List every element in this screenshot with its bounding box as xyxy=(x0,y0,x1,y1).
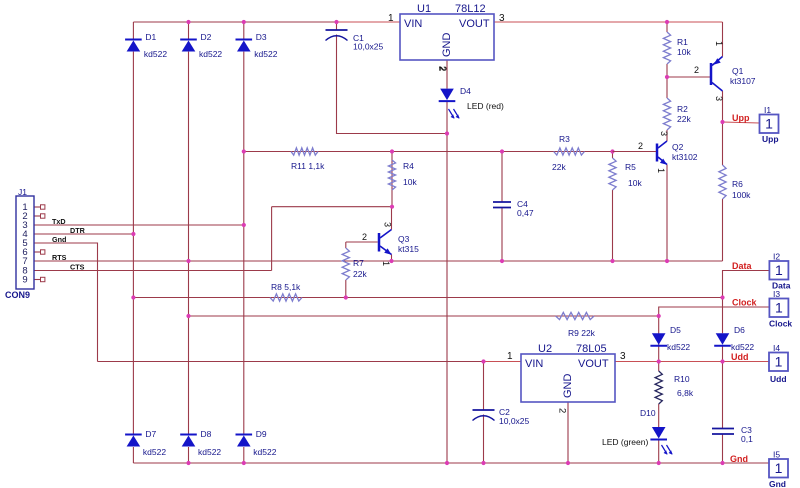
diode D10 LED xyxy=(652,427,666,439)
svg-text:D3: D3 xyxy=(256,32,267,42)
svg-text:Q3: Q3 xyxy=(398,234,410,244)
wire TxD from J1 pin3 xyxy=(34,224,244,226)
svg-text:D4: D4 xyxy=(460,86,471,96)
svg-text:10,0x25: 10,0x25 xyxy=(353,42,384,52)
junction R7-Data row xyxy=(344,295,348,299)
diode D3 xyxy=(236,39,253,41)
svg-text:CTS: CTS xyxy=(70,263,85,272)
svg-text:2: 2 xyxy=(436,66,447,71)
wire R6 top lead xyxy=(722,122,724,165)
terminal square J1 pin y=252 xyxy=(41,250,45,254)
wire R7 bottom lead xyxy=(345,280,347,298)
svg-text:DTR: DTR xyxy=(70,226,86,235)
wire D6 bottom lead xyxy=(722,346,724,362)
LED D10 arrows xyxy=(662,445,668,454)
svg-text:VIN: VIN xyxy=(404,18,422,30)
svg-text:Udd: Udd xyxy=(731,352,749,362)
wire D10 to Gnd rail xyxy=(658,440,660,463)
svg-text:100k: 100k xyxy=(732,190,751,200)
svg-text:1: 1 xyxy=(381,261,391,266)
wire D7 bottom segment xyxy=(132,447,134,463)
resistor R6 xyxy=(719,165,726,199)
svg-text:kt315: kt315 xyxy=(398,244,419,254)
resistor R1 xyxy=(663,32,670,64)
wire Gnd from J1 pin5 xyxy=(34,243,98,362)
wire R2 top lead xyxy=(666,77,668,98)
wire D2 column xyxy=(188,22,190,40)
svg-text:CON9: CON9 xyxy=(5,290,30,300)
svg-text:kd522: kd522 xyxy=(667,342,690,352)
junction D2 top xyxy=(186,20,190,24)
junction D2col-R9 row xyxy=(186,314,190,318)
wire Q1 emitter lead xyxy=(722,22,724,57)
svg-text:3: 3 xyxy=(714,96,724,101)
svg-text:I3: I3 xyxy=(773,289,780,299)
wire Q2 emitter to RTS row xyxy=(666,165,668,262)
wire Q3 emitter drop xyxy=(391,255,393,262)
svg-text:D10: D10 xyxy=(640,408,656,418)
svg-text:U1: U1 xyxy=(417,3,431,15)
resistor R5 xyxy=(609,158,616,190)
junction C3-Gnd xyxy=(720,461,724,465)
svg-text:1: 1 xyxy=(775,262,783,278)
diode D5 xyxy=(652,333,666,345)
junction R5-RTS xyxy=(610,259,614,263)
svg-text:D9: D9 xyxy=(256,429,267,439)
svg-text:Gnd: Gnd xyxy=(769,479,786,488)
svg-text:R8 5,1k: R8 5,1k xyxy=(271,282,301,292)
junction R5 top xyxy=(610,149,614,153)
connector I2 Data box xyxy=(769,261,788,280)
svg-text:3: 3 xyxy=(659,131,669,136)
junction C4 top xyxy=(500,149,504,153)
svg-text:10k: 10k xyxy=(628,178,642,188)
wire C3 bottom lead xyxy=(722,434,724,463)
svg-text:kd522: kd522 xyxy=(253,447,276,457)
connector I3 Clock box xyxy=(769,299,788,318)
wire D2 anode column down to D8 xyxy=(188,52,190,435)
wire Data/R8 row xyxy=(133,297,722,299)
wire D9 bottom segment xyxy=(243,447,245,463)
svg-text:1: 1 xyxy=(714,41,724,46)
transistor Q1 body (PNP) xyxy=(710,63,713,85)
svg-text:R9 22k: R9 22k xyxy=(568,328,596,338)
svg-text:22k: 22k xyxy=(677,114,691,124)
diode D6 xyxy=(716,333,730,345)
svg-text:1: 1 xyxy=(656,168,666,173)
junction D6/C3 Udd xyxy=(720,359,724,363)
svg-text:VOUT: VOUT xyxy=(459,18,490,30)
wire Clock corner to J3 xyxy=(659,307,770,316)
wire Data corner column to D6 xyxy=(723,271,770,334)
transistor Q2 body xyxy=(656,144,659,162)
svg-text:D1: D1 xyxy=(145,32,156,42)
resistor R8 xyxy=(270,294,302,301)
wire node row TxD-R11-R3 (y=151.5) xyxy=(244,151,656,153)
wire bright lead C1-to-U1 xyxy=(337,21,401,23)
svg-text:kt3107: kt3107 xyxy=(730,76,756,86)
resistor R3 xyxy=(554,148,585,155)
svg-text:kd522: kd522 xyxy=(143,447,166,457)
wire J1 stub pin y=252 xyxy=(34,251,41,253)
svg-text:R5: R5 xyxy=(625,162,636,172)
svg-text:Upp: Upp xyxy=(762,134,779,144)
svg-text:I2: I2 xyxy=(773,252,780,262)
svg-text:kd522: kd522 xyxy=(199,49,222,59)
svg-text:1: 1 xyxy=(507,351,513,362)
wire R5 top lead xyxy=(612,152,614,159)
svg-text:Gnd: Gnd xyxy=(52,235,66,244)
wire Upp row to I1 xyxy=(723,122,760,123)
junction R1 top xyxy=(665,20,669,24)
svg-text:GND: GND xyxy=(441,33,453,58)
svg-text:9: 9 xyxy=(22,275,27,286)
svg-text:kd522: kd522 xyxy=(254,49,277,59)
junction Upp xyxy=(720,120,724,124)
junction C4-RTS xyxy=(500,259,504,263)
wire bright C2-U2 pin1 xyxy=(484,361,522,363)
svg-text:J1: J1 xyxy=(18,187,27,197)
svg-text:2: 2 xyxy=(638,141,643,151)
svg-text:R11 1,1k: R11 1,1k xyxy=(291,161,325,171)
svg-text:VOUT: VOUT xyxy=(578,358,609,370)
resistor R4 xyxy=(388,160,395,190)
junction U2GND-Gnd xyxy=(566,461,570,465)
svg-text:10k: 10k xyxy=(677,47,691,57)
svg-text:78L12: 78L12 xyxy=(455,3,486,15)
wire R10 top lead xyxy=(658,362,660,372)
svg-text:kd522: kd522 xyxy=(198,447,221,457)
svg-text:2: 2 xyxy=(557,408,568,413)
svg-text:22k: 22k xyxy=(552,162,566,172)
wire R4 column xyxy=(391,152,393,207)
resistor R2 xyxy=(663,98,670,130)
wire U2 VOUT rail to J4 xyxy=(615,361,769,363)
wire U1 GND pin to D4 xyxy=(446,60,448,89)
terminal square J1 pin y=207 xyxy=(41,205,45,209)
wire D3 anode column down to D9 xyxy=(243,52,245,435)
wire Q2 collector to R2 xyxy=(666,130,668,141)
junction GNDcol-Gnd xyxy=(445,461,449,465)
junction R9-Clock col xyxy=(657,314,661,318)
svg-text:3: 3 xyxy=(620,351,626,362)
diode D4 LED xyxy=(440,89,454,101)
svg-text:D8: D8 xyxy=(201,429,212,439)
svg-text:I1: I1 xyxy=(764,105,771,115)
svg-text:D5: D5 xyxy=(670,325,681,335)
junction D4 cathode xyxy=(445,131,449,135)
diode D9 xyxy=(236,434,253,436)
svg-text:R10: R10 xyxy=(674,374,690,384)
svg-text:22k: 22k xyxy=(353,269,367,279)
svg-text:Data: Data xyxy=(732,261,753,271)
connector I5 Gnd box xyxy=(769,459,788,478)
junction TxD-D3 xyxy=(242,223,246,227)
wire C3 top lead xyxy=(722,362,724,429)
junction D3 top xyxy=(242,20,246,24)
svg-text:10k: 10k xyxy=(403,177,417,187)
svg-text:U2: U2 xyxy=(538,343,552,355)
wire R9 row from D2 column xyxy=(189,315,659,317)
svg-text:1: 1 xyxy=(775,460,783,476)
svg-text:2: 2 xyxy=(694,65,699,75)
svg-text:R3: R3 xyxy=(559,134,570,144)
wire D5 column to Udd rail xyxy=(658,316,660,362)
junction R4/CTS/Q3 xyxy=(390,205,394,209)
wire J1 stub pin y=207 xyxy=(34,206,41,208)
wire Q3 collector drop xyxy=(391,207,393,230)
junction C1 top xyxy=(334,20,338,24)
wire DTR from J1 pin4 xyxy=(34,233,133,235)
junction C2 top xyxy=(481,359,485,363)
wire R10 to D10 xyxy=(658,404,660,427)
transistor Q3 body xyxy=(378,233,381,252)
wire CTS from J1 pin8 xyxy=(34,270,272,272)
svg-text:1: 1 xyxy=(775,300,783,316)
svg-text:2: 2 xyxy=(362,232,367,242)
svg-text:LED (red): LED (red) xyxy=(467,101,504,111)
junction Data row-D6 col xyxy=(720,295,724,299)
svg-text:3: 3 xyxy=(383,222,393,227)
wire U2 GND pin lead xyxy=(567,402,569,463)
resistor R7 xyxy=(342,248,349,280)
svg-text:1: 1 xyxy=(765,116,773,132)
resistor R9 xyxy=(556,312,595,319)
svg-text:1: 1 xyxy=(388,13,394,24)
svg-text:3: 3 xyxy=(499,13,505,24)
wire R1 bottom to base node xyxy=(666,64,668,77)
wire D1 anode column down to D7 xyxy=(132,52,134,435)
svg-text:0,47: 0,47 xyxy=(517,208,534,218)
svg-text:GND: GND xyxy=(562,374,574,399)
svg-text:R1: R1 xyxy=(677,37,688,47)
wire CTS row to R4/Q3 xyxy=(272,206,392,208)
op-amp U2 box xyxy=(521,354,615,402)
resistor R11 xyxy=(291,148,318,155)
svg-text:Clock: Clock xyxy=(769,319,792,329)
svg-text:kd522: kd522 xyxy=(144,49,167,59)
svg-text:Clock: Clock xyxy=(732,298,758,308)
junction Q3 emitter-RTS xyxy=(389,259,393,263)
wire C1 top lead xyxy=(336,22,338,30)
wire C2 top lead xyxy=(483,362,485,411)
wire R6 bottom lead to RTS corner xyxy=(722,199,724,261)
capacitor C2 xyxy=(473,409,495,411)
capacitor C3 xyxy=(712,428,734,430)
wire J1 stub pin y=216 xyxy=(34,215,41,217)
wire U1 VOUT rail to Q1 xyxy=(494,21,723,23)
junction DTR-D1 xyxy=(131,232,135,236)
svg-text:I5: I5 xyxy=(773,450,780,460)
resistor R10 xyxy=(655,371,662,404)
wire RTS row from J1 pin7 xyxy=(34,260,723,262)
wire Q1 base wire xyxy=(667,76,710,78)
junction D9-Gnd xyxy=(242,461,246,465)
svg-text:0,1: 0,1 xyxy=(741,434,753,444)
svg-text:D6: D6 xyxy=(734,325,745,335)
svg-text:Q2: Q2 xyxy=(672,142,684,152)
wire D8 bottom segment xyxy=(188,447,190,463)
wire Q3 base wire xyxy=(346,241,378,243)
svg-text:78L05: 78L05 xyxy=(576,343,607,355)
svg-text:I4: I4 xyxy=(773,343,780,353)
wire D1 column xyxy=(132,22,134,40)
svg-text:LED (green): LED (green) xyxy=(602,437,648,447)
svg-text:kt3102: kt3102 xyxy=(672,152,698,162)
svg-text:10,0x25: 10,0x25 xyxy=(499,416,530,426)
svg-text:R2: R2 xyxy=(677,104,688,114)
svg-text:Q1: Q1 xyxy=(732,66,744,76)
terminal square J1 pin y=279.5 xyxy=(41,277,45,281)
wire R1 top lead xyxy=(666,22,668,32)
wire R5 bottom lead xyxy=(612,190,614,261)
svg-text:R4: R4 xyxy=(403,161,414,171)
junction R1/R2/Q1 base xyxy=(665,75,669,79)
junction D1col-Data row xyxy=(131,295,135,299)
wire C4 top lead xyxy=(501,152,503,203)
wire Q2 base lead xyxy=(613,151,657,153)
svg-text:RTS: RTS xyxy=(52,253,67,262)
connector I4 Udd box xyxy=(769,353,788,372)
svg-text:TxD: TxD xyxy=(52,217,66,226)
connector I1 Upp box xyxy=(760,115,779,134)
svg-text:D7: D7 xyxy=(145,429,156,439)
wire D4 cathode / GND column down to Gnd rail xyxy=(446,102,448,464)
wire Gnd bottom rail xyxy=(133,462,769,464)
svg-text:6,8k: 6,8k xyxy=(677,388,694,398)
junction node row start xyxy=(242,149,246,153)
wire C1 bottom lead to corner xyxy=(337,35,448,134)
junction D5/R10 xyxy=(657,359,661,363)
diode D8 xyxy=(180,434,197,436)
svg-text:1: 1 xyxy=(775,354,783,370)
capacitor C4 xyxy=(493,201,511,203)
svg-text:Gnd: Gnd xyxy=(730,454,748,464)
svg-text:R6: R6 xyxy=(732,179,743,189)
svg-text:Udd: Udd xyxy=(770,374,787,384)
svg-text:Upp: Upp xyxy=(732,113,750,123)
svg-text:D2: D2 xyxy=(201,32,212,42)
wire top +V rail (D1..C1..U1 VIN) xyxy=(133,21,400,23)
capacitor C1 xyxy=(326,29,348,31)
connector J1 box xyxy=(16,196,34,289)
wire C4 bottom lead xyxy=(501,208,503,262)
junction C2-Gnd xyxy=(481,461,485,465)
junction R4 top xyxy=(390,149,394,153)
op-amp U1 box xyxy=(400,14,494,60)
wire Q1 collector lead xyxy=(722,91,724,122)
wire J1 stub pin y=279.5 xyxy=(34,279,41,281)
junction RTS-D2 xyxy=(186,259,190,263)
wire C2 bottom lead xyxy=(483,415,485,464)
diode D1 xyxy=(125,39,142,41)
wire VIN rail (Gnd pin5 to U2) xyxy=(98,361,522,363)
wire D3 column xyxy=(243,22,245,40)
junction D8-Gnd xyxy=(186,461,190,465)
junction Q2 emitter-RTS xyxy=(665,259,669,263)
diode D7 xyxy=(125,434,142,436)
wire CTS vertical xyxy=(271,207,273,271)
svg-text:R7: R7 xyxy=(353,258,364,268)
LED D4 arrows xyxy=(449,109,455,118)
svg-text:VIN: VIN xyxy=(525,358,543,370)
diode D2 xyxy=(180,39,197,41)
svg-text:kd522: kd522 xyxy=(731,342,754,352)
terminal square J1 pin y=216 xyxy=(41,214,45,218)
wire R7 top lead xyxy=(345,242,347,248)
junction D10-Gnd xyxy=(657,461,661,465)
